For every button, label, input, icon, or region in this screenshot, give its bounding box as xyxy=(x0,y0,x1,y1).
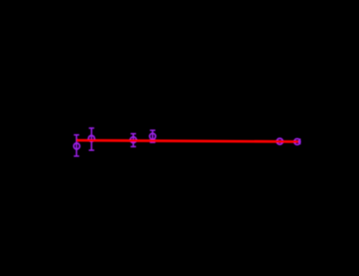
error bar point 6 (small, right side) xyxy=(299,139,301,145)
marker point 3 xyxy=(130,137,136,143)
marker point 6 xyxy=(294,139,300,145)
error bar point 3 xyxy=(131,134,136,147)
error bar point 4 xyxy=(150,130,155,142)
marker point 1 xyxy=(74,143,80,149)
error bar point 2 xyxy=(89,128,94,150)
marker point 5 xyxy=(277,138,283,144)
marker point 4 xyxy=(150,133,156,139)
error bar point 1 xyxy=(74,135,79,156)
fit line (red model curve) xyxy=(76,140,298,141)
marker point 2 xyxy=(89,136,95,142)
